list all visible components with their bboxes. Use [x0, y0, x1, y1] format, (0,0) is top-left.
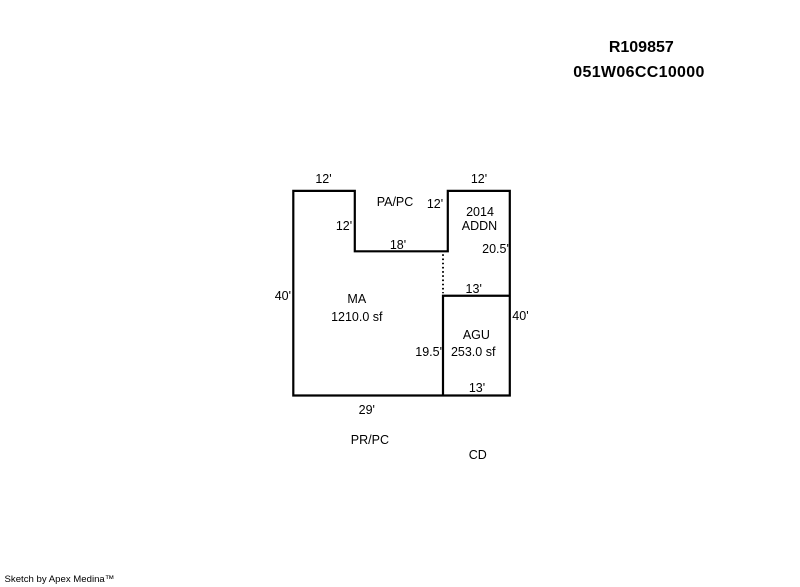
- area value 253.0 sf: [451, 346, 495, 359]
- dim 40' left: [275, 290, 291, 303]
- label 2014: [466, 206, 494, 219]
- area value 1210.0 sf: [331, 311, 382, 324]
- footer credit: Sketch by Apex Medina™: [5, 575, 115, 585]
- area label PR/PC: [351, 434, 389, 447]
- dim 12' (notch): [336, 220, 352, 233]
- dim 12' (addn top): [471, 173, 487, 186]
- label ADDN: [462, 220, 497, 233]
- dim 12' top-left: [315, 173, 331, 186]
- area label MA: [347, 293, 366, 306]
- header map-taxlot 051W06CC10000: [573, 65, 705, 81]
- area label PA/PC: [377, 196, 414, 209]
- dim 19.5': [415, 346, 442, 359]
- dim 13' (AGU bottom): [469, 382, 485, 395]
- dim 40' right: [512, 310, 528, 323]
- building main outline MA (walls: top-left 12', notch-left 12', notch-bottom 18', addn-left 12', addn-top 12', right 20.5'+40', bottom 29'+13', left 40'): [293, 191, 510, 396]
- dim 13' (AGU top): [466, 283, 482, 296]
- dim 18': [390, 239, 406, 252]
- header parcel id R109857: [609, 40, 674, 56]
- AGU inner partition walls (left 19.5' and top 13'): [443, 296, 510, 396]
- area label CD: [469, 449, 487, 462]
- dim 12' (addn left): [427, 198, 443, 211]
- area label AGU: [463, 329, 490, 342]
- dim 20.5': [482, 243, 509, 256]
- dim 29': [359, 404, 375, 417]
- dotted wall segment below 18' line: [442, 254, 444, 293]
